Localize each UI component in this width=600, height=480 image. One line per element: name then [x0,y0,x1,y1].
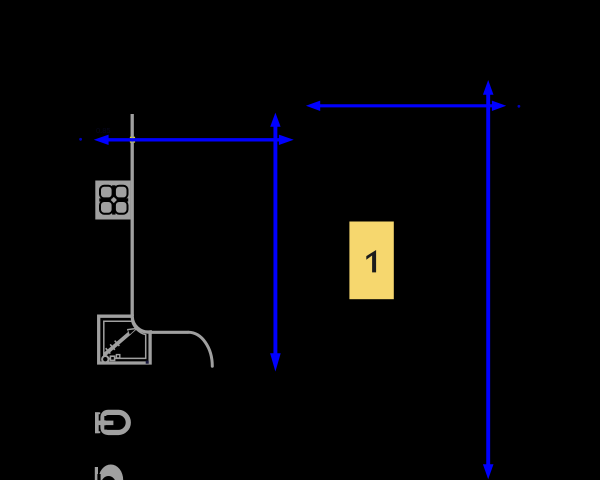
bidet bowl inner opening [101,476,116,480]
glass block base square [95,181,130,220]
intersection snap marker (yellow X) [130,137,135,143]
dimension arrow horizontal 1 left head [94,135,109,145]
dimension arrow vertical 2 shaft [486,93,490,466]
glass block cross horizontal channel [99,198,128,201]
viewport tag number 1 [366,250,376,272]
svg-text:0.85: 0.85 [96,126,111,135]
toilet tank top tick [95,412,100,414]
glass block petal ring bottom-left [100,201,113,214]
dimension arrow horizontal 2 left head [306,101,320,111]
glass block center diamond [111,197,117,203]
shower enclosure outline with concave corner fillet [99,316,150,363]
dimension arrow vertical 1 shaft [273,125,277,355]
grip point at shower corner [146,361,149,364]
bidet gap notch [97,474,100,480]
dimension arrow vertical 2 top head [483,80,494,95]
glass block petal ring bottom-right [115,201,128,214]
toilet tank bar [95,412,99,433]
glass block petal ring top-right [115,186,128,199]
bidet tank bar (partial at bottom edge) [95,467,98,480]
dimension arrow horizontal 2 right head [492,101,506,111]
wall line (vertical partition) [131,114,134,316]
dimension arrow vertical 1 bottom head [270,353,281,371]
toilet tank bottom tick [95,431,100,433]
glass block petal ring top-left [100,186,113,199]
shower diagonal tick 1 [106,348,111,353]
door swing arc [189,332,213,366]
toilet bowl left inner strips [104,416,108,420]
shower valve square 2 [116,355,119,358]
dimension arrow vertical 1 top head [270,113,280,127]
bidet bowl (partial at bottom edge) [98,465,123,480]
door wall segment [150,331,188,334]
shower diagonal tick 3 [115,341,120,346]
pick point dot left [79,138,82,141]
dimension arrow horizontal 1 shaft [106,138,281,141]
shower tray inner line [104,321,146,358]
shower diagonal tick 2 [110,344,115,349]
dimension arrow horizontal 2 shaft [318,104,494,107]
glass block cross vertical channel [112,185,115,214]
toilet bowl [103,412,128,432]
dimension arrow horizontal 1 right head [279,135,294,145]
viewport tag box [349,222,393,300]
shower diagonal drain line [104,333,130,355]
shower drain circle [102,356,108,362]
shower valve square 1 [110,356,114,360]
toilet hinge tab [98,421,113,426]
dimension arrow vertical 2 bottom head [483,464,494,479]
shower diagonal arrowhead (open) [127,327,139,335]
pick point dot right [518,105,521,108]
